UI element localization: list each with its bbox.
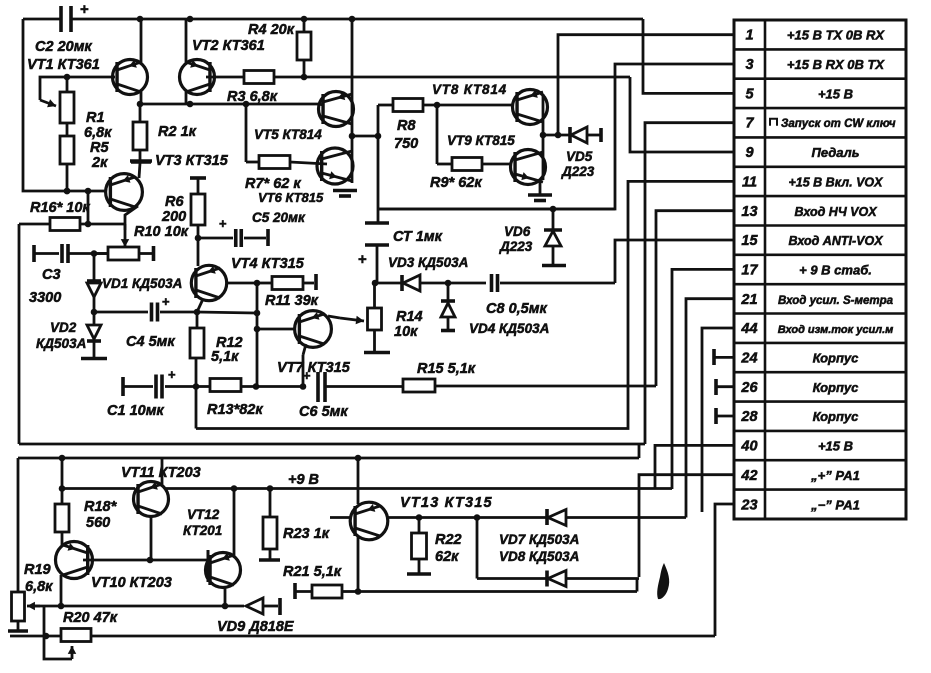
svg-text:VT3 КТ315: VT3 КТ315 <box>155 153 229 169</box>
wire VT1 collector <box>140 91 143 104</box>
svg-text:VD6: VD6 <box>504 224 531 239</box>
svg-text:3300: 3300 <box>29 290 61 306</box>
svg-text:42: 42 <box>740 468 757 484</box>
wire VT4 emitter <box>197 299 203 312</box>
svg-text:+15 В Вкл. VOX: +15 В Вкл. VOX <box>789 175 884 189</box>
wire R12 to pin11 route <box>195 387 198 429</box>
svg-text:2к: 2к <box>91 155 108 171</box>
svg-text:+: + <box>303 368 311 383</box>
svg-text:R20 47к: R20 47к <box>63 610 118 626</box>
potentiometer R10 <box>108 247 139 260</box>
wire hook to R20 wiper <box>44 606 72 659</box>
wire VT1 emitter <box>140 19 143 63</box>
svg-text:5: 5 <box>745 86 754 102</box>
transistor VT6 <box>317 148 353 184</box>
wire VT5 VT6 collector rail <box>351 19 354 183</box>
diode VD6 <box>550 206 557 213</box>
wire R1 wiper <box>40 77 67 100</box>
svg-text:VT2 КТ361: VT2 КТ361 <box>192 38 265 54</box>
ground VT9 <box>539 182 542 194</box>
svg-text:26: 26 <box>740 380 758 396</box>
svg-text:VT6 КТ815: VT6 КТ815 <box>258 190 324 205</box>
wire R16 row <box>87 191 90 224</box>
svg-text:Корпус: Корпус <box>813 380 860 395</box>
wire pin 17 net <box>672 269 734 489</box>
wire VT10 collector <box>60 575 63 606</box>
resistor R3 <box>244 71 274 84</box>
resistor R5 <box>66 123 69 136</box>
svg-text:VT1 КТ361: VT1 КТ361 <box>27 57 100 73</box>
svg-text:+15 В ТХ 0В RX: +15 В ТХ 0В RX <box>787 28 886 43</box>
svg-text:VD1 КД503А: VD1 КД503А <box>102 276 182 291</box>
ground pin 24 <box>712 349 716 365</box>
resistor R1 <box>66 77 69 92</box>
wire VT2 base to R3 <box>206 76 244 79</box>
svg-text:Корпус: Корпус <box>813 351 860 366</box>
wire VT13 collector drop <box>355 455 362 462</box>
wire VT4 collector wire to R11 <box>227 282 257 285</box>
svg-text:6,8к: 6,8к <box>25 579 53 595</box>
diode VD5 <box>543 134 569 137</box>
svg-text:200: 200 <box>161 209 186 225</box>
capacitor CT 1mk <box>365 221 389 225</box>
svg-text:VT10 КТ203: VT10 КТ203 <box>91 575 172 591</box>
diode VD8 <box>545 571 549 587</box>
svg-text:28: 28 <box>740 409 758 425</box>
svg-text:Д223: Д223 <box>499 239 533 254</box>
svg-text:+: + <box>219 216 227 231</box>
svg-text:11: 11 <box>742 174 757 190</box>
svg-text:+15 В: +15 В <box>818 439 853 454</box>
wire VT11 base <box>62 487 135 490</box>
svg-text:+15 В: +15 В <box>818 86 853 101</box>
wire pin 3 net <box>377 64 734 209</box>
svg-text:VD4 КД503А: VD4 КД503А <box>469 321 549 336</box>
svg-text:Вход НЧ VOX: Вход НЧ VOX <box>794 205 877 219</box>
node VT7 emitter bottom <box>300 383 307 390</box>
wire VT7 base <box>254 326 261 333</box>
svg-text:+: + <box>358 251 367 268</box>
wire VT3 emitter to R10 wiper <box>125 206 138 243</box>
svg-text:17: 17 <box>741 262 758 278</box>
diode VD2 <box>91 309 98 316</box>
wire pin 44 net <box>702 328 734 512</box>
diode VD9 <box>246 598 263 614</box>
wire R19 wiper arrow <box>27 605 40 608</box>
wire R11 junction down <box>256 283 259 313</box>
wire R8 link <box>352 135 378 138</box>
svg-text:VT9 КТ815: VT9 КТ815 <box>447 133 515 148</box>
svg-text:23: 23 <box>740 497 757 513</box>
svg-text:+: + <box>80 1 89 18</box>
svg-text:VT7 КТ315: VT7 КТ315 <box>277 360 351 376</box>
ground R22 <box>407 572 431 576</box>
transistor VT3 <box>106 174 143 211</box>
svg-text:VT8 КТ814: VT8 КТ814 <box>432 82 507 97</box>
svg-text:R13*82к: R13*82к <box>207 402 263 418</box>
svg-text:VT4 КТ315: VT4 КТ315 <box>231 256 305 272</box>
wire pin 1 net <box>558 35 734 135</box>
svg-text:1: 1 <box>745 28 753 44</box>
svg-text:R3 6,8к: R3 6,8к <box>227 89 278 105</box>
transistor VT12 <box>206 553 241 588</box>
transistor VT2 <box>180 60 215 95</box>
wire VT11 collector <box>150 516 153 560</box>
ground R19 <box>8 629 28 633</box>
svg-text:9: 9 <box>745 145 753 161</box>
resistor R13 <box>196 385 210 388</box>
svg-text:С3: С3 <box>42 267 61 283</box>
wire left border <box>18 224 21 444</box>
diode VD4 <box>445 280 452 287</box>
resistor R21 <box>293 583 297 599</box>
wire VT1 loop left <box>23 19 105 191</box>
svg-text:10к: 10к <box>394 324 418 340</box>
wire bottom row <box>10 635 61 638</box>
svg-text:7: 7 <box>745 116 754 132</box>
svg-text:VD9 Д818Е: VD9 Д818Е <box>217 619 295 635</box>
wire R8 node down <box>377 136 380 223</box>
capacitor C6 <box>316 372 320 402</box>
wire VT12 emitter <box>233 489 236 557</box>
svg-text:44: 44 <box>740 321 757 337</box>
potentiometer R20 <box>61 629 91 642</box>
capacitor C4 <box>150 303 154 322</box>
potentiometer R14 <box>373 283 376 308</box>
wire VT7 emitter <box>303 344 306 355</box>
node top rail junctions <box>137 16 144 23</box>
svg-text:VD8 КД503А: VD8 КД503А <box>499 549 579 564</box>
svg-text:R16* 10к: R16* 10к <box>30 200 90 216</box>
svg-text:R9* 62к: R9* 62к <box>430 175 482 191</box>
ground pin 26 <box>714 379 718 395</box>
wire pin 42 net <box>639 475 734 577</box>
wire VT10 base row <box>83 559 208 562</box>
svg-text:Вход ANTI-VOX: Вход ANTI-VOX <box>788 234 883 248</box>
svg-text:15: 15 <box>741 233 758 249</box>
svg-text:С6 5мк: С6 5мк <box>299 404 348 420</box>
resistor R4 <box>303 19 306 32</box>
wire pin 23 net <box>715 504 734 636</box>
svg-text:R14: R14 <box>396 309 423 325</box>
wire VD9 row <box>30 605 244 608</box>
wire C4 row <box>94 311 148 314</box>
wire pin 13 net <box>656 211 734 386</box>
resistor R7 <box>245 104 248 162</box>
svg-text:R22: R22 <box>435 532 462 548</box>
resistor R22 <box>418 518 421 534</box>
svg-text:С4 5мк: С4 5мк <box>126 334 175 350</box>
wire pin 7 net <box>645 123 734 444</box>
svg-text:„−” РА1: „−” РА1 <box>810 497 860 512</box>
resistor R11 <box>257 282 272 285</box>
svg-text:С2 20мк: С2 20мк <box>35 39 92 55</box>
wire VT7 collector to R14 wiper <box>328 316 340 318</box>
svg-text:R8: R8 <box>397 118 416 134</box>
diode VD7 <box>545 509 549 525</box>
svg-text:R2 1к: R2 1к <box>158 124 197 140</box>
svg-text:R6: R6 <box>165 194 184 210</box>
svg-text:13: 13 <box>741 204 757 220</box>
wire y283 row <box>372 280 379 287</box>
svg-text:21: 21 <box>740 292 757 308</box>
node VT4 emitter junction <box>194 309 201 316</box>
resistor R23 <box>267 485 274 492</box>
svg-text:Педаль: Педаль <box>812 145 860 160</box>
ink mark <box>657 563 669 599</box>
svg-text:+ 9 В стаб.: + 9 В стаб. <box>799 262 872 277</box>
svg-text:R15 5,1к: R15 5,1к <box>417 361 476 377</box>
resistor R9 <box>436 105 439 164</box>
transistor VT8 <box>513 90 548 125</box>
svg-text:VT12: VT12 <box>187 507 220 522</box>
svg-text:С1 10мк: С1 10мк <box>107 403 164 419</box>
wire VT1 base <box>67 76 115 79</box>
svg-text:VD3 КД503А: VD3 КД503А <box>388 255 468 270</box>
capacitor C8 <box>448 282 486 285</box>
transistor VT9 <box>511 150 546 185</box>
resistor R12 <box>196 312 199 328</box>
svg-text:40: 40 <box>740 439 757 455</box>
svg-text:КТ201: КТ201 <box>183 523 222 538</box>
svg-text:VT13 КТ315: VT13 КТ315 <box>400 495 493 511</box>
transistor VT5 <box>319 92 354 127</box>
wire VD8 row <box>476 518 479 579</box>
svg-text:R7* 62 к: R7* 62 к <box>245 176 301 192</box>
capacitor C3 <box>32 245 36 262</box>
resistor R18 <box>55 504 69 532</box>
ground pin 28 <box>714 408 718 424</box>
resistor R16 <box>19 223 50 226</box>
wire VT5 base <box>318 104 324 105</box>
svg-text:560: 560 <box>86 515 110 531</box>
wire VT12 collector <box>224 587 227 606</box>
wire R19 top lead <box>17 458 20 592</box>
svg-text:6,8к: 6,8к <box>84 125 112 141</box>
transistor VT4 <box>191 265 226 300</box>
wire pin 15 net <box>615 240 734 283</box>
svg-text:СТ 1мк: СТ 1мк <box>393 229 443 245</box>
svg-text:VT5 КТ814: VT5 КТ814 <box>254 127 322 142</box>
svg-text:R21 5,1к: R21 5,1к <box>283 564 342 580</box>
wire lower rail y458 <box>18 457 639 460</box>
svg-text:62к: 62к <box>435 549 459 565</box>
svg-text:R11 39к: R11 39к <box>265 293 319 309</box>
wire VT2 collector <box>185 91 188 104</box>
wire R21 row to right <box>355 588 362 595</box>
resistor R6 <box>190 176 206 180</box>
connector pin table <box>734 20 906 519</box>
svg-text:24: 24 <box>740 351 757 367</box>
wire VT8 VT9 collector rail <box>542 94 545 180</box>
ground VT6 <box>333 189 357 193</box>
svg-text:R10 10к: R10 10к <box>134 224 189 240</box>
svg-text:С5 20мк: С5 20мк <box>252 210 306 225</box>
wire VT13 base <box>330 516 352 519</box>
svg-text:+: + <box>162 294 170 309</box>
svg-text:3: 3 <box>745 57 753 73</box>
resistor R8 <box>393 99 423 112</box>
wire +15V top rail <box>23 18 61 21</box>
wire pin 21 net <box>686 299 734 518</box>
svg-text:R5: R5 <box>90 140 109 156</box>
wire VT3 collector <box>139 163 140 178</box>
svg-text:R19: R19 <box>24 562 51 578</box>
svg-text:С8 0,5мк: С8 0,5мк <box>486 301 547 317</box>
svg-text:+15 В RX 0В ТХ: +15 В RX 0В ТХ <box>787 57 886 72</box>
wire audio row y386 <box>121 377 125 396</box>
transistor VT7 <box>295 311 332 348</box>
svg-text:Вход усил. S-метра: Вход усил. S-метра <box>778 295 894 307</box>
svg-text:Корпус: Корпус <box>813 409 860 424</box>
capacitor C2 <box>59 6 63 32</box>
wire pin 40 net <box>655 445 734 489</box>
svg-text:VD7 КД503А: VD7 КД503А <box>499 532 579 547</box>
wire VT13 collector row <box>387 516 686 519</box>
resistor R19 <box>12 592 25 621</box>
diode VD3 <box>403 275 420 291</box>
wire VT13 emitter <box>357 536 360 592</box>
wire CW rail y444 <box>19 443 645 446</box>
svg-text:Запуск от CW ключ: Запуск от CW ключ <box>781 118 896 130</box>
svg-text:R1: R1 <box>86 110 105 126</box>
wire VT11 emitter <box>161 458 164 485</box>
svg-text:+9 В: +9 В <box>288 472 319 488</box>
transistor VT1 <box>113 60 148 95</box>
wire pin 11 net <box>196 181 734 428</box>
svg-text:R18*: R18* <box>84 499 118 515</box>
svg-text:„+” РА1: „+” РА1 <box>810 468 860 483</box>
svg-text:КД503А: КД503А <box>36 336 86 351</box>
wire +9V rail <box>166 487 672 490</box>
svg-text:+: + <box>168 367 176 382</box>
svg-text:R23 1к: R23 1к <box>283 526 330 542</box>
wire VT2 emitter <box>185 19 188 63</box>
wire pin 9 net <box>630 77 734 152</box>
svg-text:VD2: VD2 <box>50 320 77 335</box>
node VT3 base junctions <box>64 188 71 195</box>
svg-text:Вход изм.ток усил.м: Вход изм.ток усил.м <box>778 324 894 336</box>
capacitor C5 <box>198 237 233 240</box>
resistor R15 <box>403 379 435 392</box>
diode VD1 <box>93 254 96 282</box>
wire rail y209 <box>377 208 615 211</box>
svg-text:750: 750 <box>394 136 418 152</box>
svg-text:VD5: VD5 <box>566 149 593 164</box>
wire R18 drop <box>59 455 66 462</box>
svg-text:5,1к: 5,1к <box>211 349 239 365</box>
transistor VT13 <box>350 502 388 540</box>
wire VT12 base bar link <box>207 550 210 582</box>
wire collector row y104 <box>140 103 318 106</box>
svg-text:R4 20к: R4 20к <box>248 22 295 38</box>
transistor VT10 <box>56 542 93 579</box>
capacitor C1 <box>154 375 158 399</box>
wire pin 5 net <box>643 19 734 93</box>
node R12 bottom <box>193 383 200 390</box>
svg-text:Д223: Д223 <box>561 164 595 179</box>
resistor R2 <box>139 104 142 122</box>
transistor VT11 <box>134 482 169 517</box>
